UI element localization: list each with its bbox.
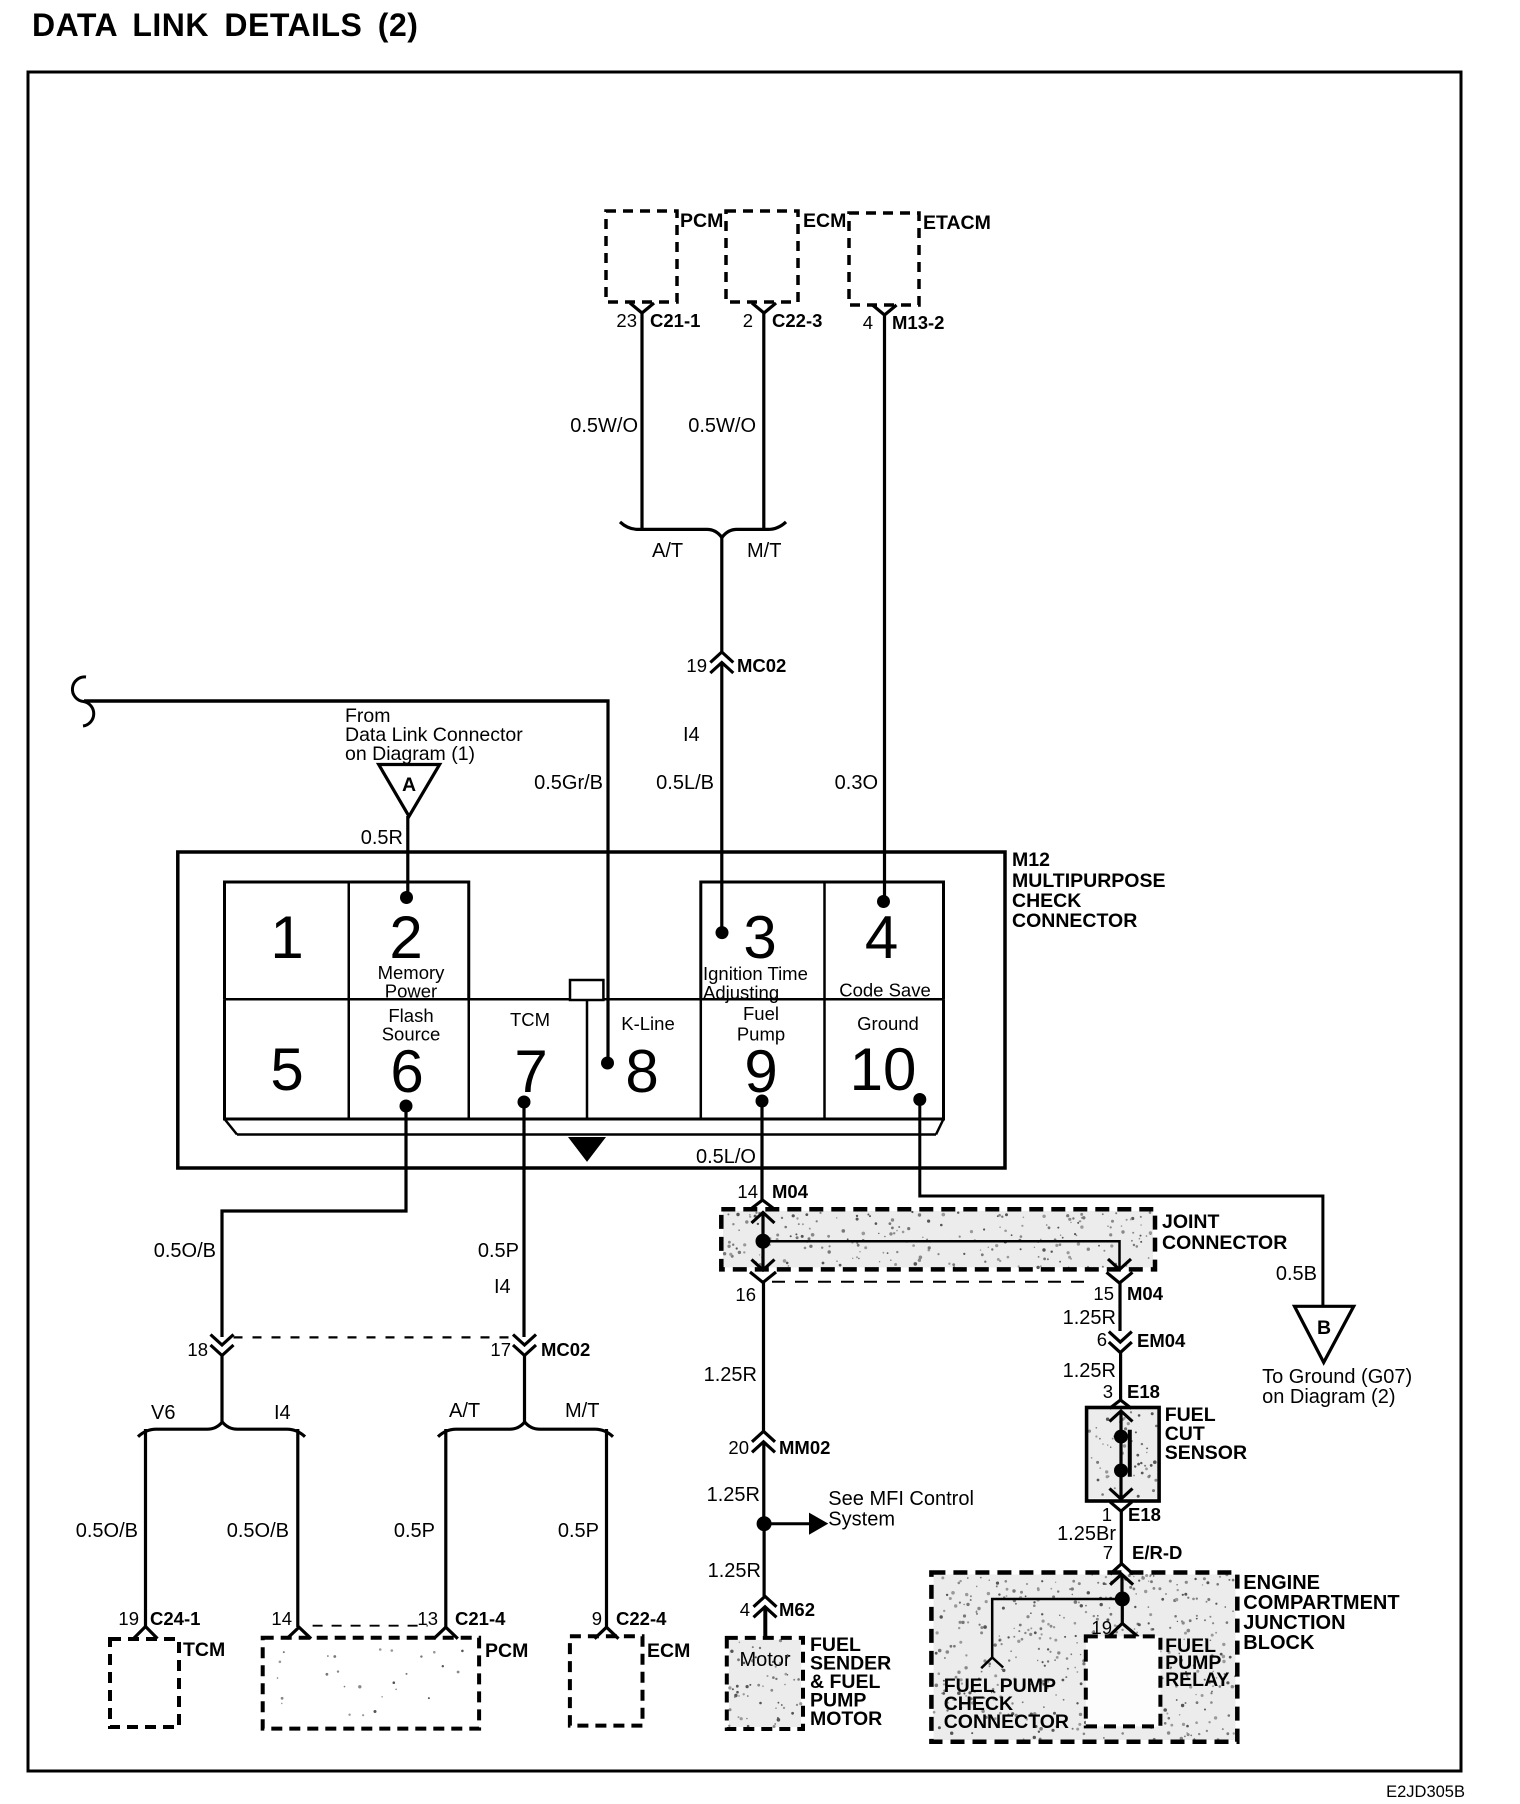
node pin 10 junction dot [913,1093,926,1106]
svg-text:SENSOR: SENSOR [1165,1442,1247,1464]
wire label 1.25R (motor mid) [707,1484,760,1506]
in-line connector pin 19 MC02 [710,652,733,673]
svg-text:4: 4 [865,904,898,971]
pin 8 numeral [625,1038,658,1105]
svg-text:1: 1 [270,904,303,971]
svg-text:3: 3 [743,904,776,971]
svg-text:MC02: MC02 [541,1339,590,1360]
node pin 7 junction dot [518,1096,531,1109]
svg-text:CONNECTOR: CONNECTOR [944,1711,1069,1733]
svg-text:Adjusting: Adjusting [703,982,779,1003]
pin 9 label Fuel Pump [737,1003,785,1045]
svg-text:To Ground (G07): To Ground (G07) [1262,1366,1412,1388]
label ECM (top box) [803,210,846,232]
terminal fork pin 13 of PCM [434,1627,458,1639]
terminal fork fuel pump check connector [981,1658,1003,1669]
connector name EM04 [1137,1330,1186,1351]
svg-text:Motor: Motor [739,1649,790,1671]
pin 2 label Memory Power [378,962,446,1002]
wire label 0.5L/B [656,772,714,794]
pin number 14 (PCM) [271,1608,292,1629]
svg-text:Ground: Ground [857,1013,919,1034]
sensor contact bar [1128,1430,1132,1477]
label Motor [739,1649,790,1671]
ECU box ECM (bottom) [570,1636,643,1725]
wire 1.25R from junction to connector M62 [762,1524,765,1597]
pin number 18 [187,1339,208,1360]
in-line connector pin 20 MM02 [752,1431,775,1452]
wire 1.25R from pin 15 to connector EM04 [1118,1283,1121,1331]
wire joint connector bus to pin 15 [763,1241,1120,1268]
svg-text:A/T: A/T [652,540,683,562]
svg-text:CHECK: CHECK [1012,890,1081,912]
annotation To Ground (G07) on Diagram (2) [1262,1366,1412,1408]
node pin 6 junction dot [400,1100,413,1113]
svg-text:0.5W/O: 0.5W/O [688,415,756,437]
wire label 0.5O/B (upper) [154,1240,216,1262]
node pin 3 junction dot [716,926,729,939]
node pin 2 junction dot [400,891,413,904]
svg-text:JOINT: JOINT [1162,1211,1220,1233]
split bracket V6-I4 [138,1422,305,1437]
arrowhead up (joint connector entry) [752,1213,775,1224]
svg-text:5: 5 [270,1036,303,1103]
svg-text:M/T: M/T [565,1400,599,1422]
wire 1.25R from EM04 to E18 [1119,1352,1122,1400]
fuel cut sensor box [1087,1408,1160,1502]
in-line connector pin 18 (MC02) [211,1335,234,1356]
in-line connector pin 4 M62 [754,1596,777,1617]
fuel cut sensor internal wire [1119,1411,1122,1498]
svg-text:0.5B: 0.5B [1276,1263,1317,1285]
label FUEL PUMP CHECK CONNECTOR [944,1675,1069,1733]
cell divider 6|7 [468,999,471,1119]
svg-text:4: 4 [740,1599,750,1620]
cell divider 7|8 [586,999,589,1119]
terminal fork pin 15 M04 [1107,1272,1133,1283]
wire label 0.5P (A/T) [394,1520,435,1542]
ECU box ETACM (top) [849,213,919,305]
connector name M04 (15) [1127,1283,1164,1304]
wire 1.25Br from sensor to E/R-D [1120,1511,1123,1564]
svg-text:E18: E18 [1127,1381,1160,1402]
pin number 15 [1093,1283,1114,1304]
wire label 1.25Br [1057,1523,1116,1545]
check connector cell grid [225,882,944,1119]
svg-text:Source: Source [382,1024,441,1045]
svg-text:7: 7 [514,1038,547,1105]
svg-text:0.5P: 0.5P [478,1240,519,1262]
svg-text:B: B [1317,1317,1331,1339]
cell divider 9|10 [823,882,826,1119]
dashed link between connectors 18 and 17 [234,1336,514,1338]
svg-text:E2JD305B: E2JD305B [1386,1783,1465,1801]
label I4 (branch) [274,1402,291,1424]
svg-text:MC02: MC02 [737,655,786,676]
pin number 13 (PCM) [417,1608,438,1629]
svg-text:PCM: PCM [485,1640,528,1662]
svg-text:Power: Power [385,981,437,1002]
wire 1.25R from MM02 to junction [762,1442,765,1524]
pin 2 numeral [389,904,422,971]
svg-text:V6: V6 [151,1402,175,1424]
connector name C22-3 [772,310,822,331]
wire label 0.5P (M/T) [558,1520,599,1542]
in-line connector at junction block entry [1110,1564,1133,1585]
split bracket A/T-M/T (lower) [438,1422,613,1437]
terminal fork pin 1 E18 [1110,1502,1132,1511]
in-line connector pin 17 MC02 [513,1335,536,1356]
wire label 1.25R (motor lower) [708,1560,761,1582]
svg-text:15: 15 [1093,1283,1114,1304]
label FUEL CUT SENSOR [1165,1404,1247,1464]
pin number 6 [1097,1329,1107,1350]
wire from A/T-M/T merge to connector MC02 pin 19 [720,537,723,653]
svg-text:on Diagram (2): on Diagram (2) [1262,1386,1395,1408]
pin 7 label TCM [510,1009,550,1030]
svg-text:0.5P: 0.5P [558,1520,599,1542]
terminal fork pin 16 [750,1272,776,1283]
wire 0.5P from pin 7 [522,1102,525,1337]
wire 0.5P A/T branch to PCM pin 13 [444,1429,447,1627]
wire from connector 17 to A/T-M/T split [523,1356,526,1423]
svg-text:M04: M04 [772,1181,809,1202]
wire label 0.5P (upper) [478,1240,519,1262]
wire label 1.25R (motor upper) [704,1364,757,1386]
wire label 0.5B [1276,1263,1317,1285]
wire to MFI control system with arrowhead [764,1514,827,1534]
svg-text:E/R-D: E/R-D [1132,1542,1182,1563]
label ETACM (top box) [923,212,991,234]
connector name MM02 [779,1437,830,1458]
wire label 1.25R (right lower) [1063,1360,1116,1382]
pin number 4 (M62) [740,1599,750,1620]
label FUEL SENDER & FUEL PUMP MOTOR [810,1634,891,1730]
svg-text:ENGINE: ENGINE [1243,1572,1320,1594]
connector name MC02 (17) [541,1339,590,1360]
pin number 9 (ECM) [592,1608,602,1629]
arrowhead down (right exit) [1108,1259,1131,1270]
svg-text:1.25R: 1.25R [1063,1360,1116,1382]
terminal fork pin 23 of PCM [630,303,654,313]
label M/T (top) [747,540,781,562]
pin 10 numeral [850,1036,917,1103]
svg-text:C24-1: C24-1 [150,1608,200,1629]
svg-text:0.5O/B: 0.5O/B [154,1240,216,1262]
svg-text:JUNCTION: JUNCTION [1243,1612,1345,1634]
connector name C24-1 [150,1608,200,1629]
terminal fork pin 2 of ECM [752,303,776,313]
wire 0.5O/B V6 branch to TCM [144,1429,147,1627]
terminal fork pin 4 of ETACM [873,305,897,315]
pin 7 numeral [514,1038,547,1105]
terminal fork pin 14 of PCM [287,1627,311,1639]
annotation See MFI Control System [828,1488,974,1531]
svg-text:EM04: EM04 [1137,1330,1186,1351]
svg-text:1.25R: 1.25R [704,1364,757,1386]
svg-text:0.5O/B: 0.5O/B [227,1520,289,1542]
svg-text:19: 19 [686,655,707,676]
svg-text:0.5R: 0.5R [361,827,403,849]
wire label 0.5O/B (I4) [227,1520,289,1542]
wire stub squiggle [72,677,93,726]
pin number 19 (TCM) [118,1608,139,1629]
pin 5 numeral [270,1036,303,1103]
svg-text:M04: M04 [1127,1283,1164,1304]
wire 0.5Gr/B horizontal from data link [84,699,610,703]
svg-text:0.5O/B: 0.5O/B [76,1520,138,1542]
svg-text:on Diagram (1): on Diagram (1) [345,743,475,765]
ECU box PCM (bottom) [263,1638,479,1729]
svg-text:C21-4: C21-4 [455,1608,506,1629]
cell divider 8|9 [700,999,703,1119]
harness label I4 [683,724,700,746]
harness label I4 (0.5P wire) [494,1276,511,1298]
ECU box TCM (bottom) [110,1639,179,1727]
pin 4 label Code Save [839,980,931,1001]
pin 10 label Ground [857,1013,919,1034]
svg-text:10: 10 [850,1036,917,1103]
svg-text:13: 13 [417,1608,438,1629]
svg-text:MM02: MM02 [779,1437,830,1458]
orientation marker filled triangle [569,1138,605,1162]
node joint connector junction dot [756,1234,771,1249]
svg-text:0.5L/O: 0.5L/O [696,1146,756,1168]
wire 0.5O/B from pin 6 [222,1106,406,1337]
svg-text:0.5P: 0.5P [394,1520,435,1542]
svg-text:4: 4 [863,312,873,333]
joint connector continuation dashed line [772,1281,1090,1283]
connector name E/R-D [1132,1542,1182,1563]
svg-text:16: 16 [735,1284,756,1305]
wire from connector 18 to V6-I4 split [220,1356,223,1423]
svg-text:14: 14 [271,1608,292,1629]
pin 4 numeral [865,904,898,971]
svg-text:0.5Gr/B: 0.5Gr/B [534,772,603,794]
svg-text:3: 3 [1103,1381,1113,1402]
svg-text:A/T: A/T [449,1400,480,1422]
pin 3 label Ignition Time Adjusting [703,963,808,1003]
wire label 0.5Gr/B [534,772,603,794]
label M/T (lower) [565,1400,599,1422]
svg-text:I4: I4 [683,724,700,746]
node pin 8 junction dot [601,1057,614,1070]
off-page triangle B [1295,1306,1354,1362]
terminal fork pin 3 E18 [1110,1400,1132,1409]
svg-text:2: 2 [389,904,422,971]
svg-text:BLOCK: BLOCK [1243,1632,1315,1654]
wire from M62 into motor [763,1607,767,1638]
svg-text:Ignition Time: Ignition Time [703,963,808,984]
terminal fork pin 19 of fuel pump relay [1107,1623,1139,1638]
node junction block dot [1115,1592,1130,1607]
svg-text:E18: E18 [1128,1504,1161,1525]
svg-text:COMPARTMENT: COMPARTMENT [1243,1592,1399,1614]
arrowhead up (sensor entry) [1110,1411,1133,1422]
svg-text:1.25R: 1.25R [707,1484,760,1506]
label TCM (bottom box) [183,1639,225,1661]
node sensor contact dot lower [1114,1464,1128,1478]
label FUEL PUMP RELAY [1165,1635,1229,1691]
svg-text:20: 20 [728,1437,749,1458]
connector key tab [570,980,603,1000]
svg-text:7: 7 [1103,1542,1113,1563]
wire 0.5R from triangle A to check connector pin 2 [406,816,409,898]
wire 0.5W/O from ECM pin 2 [762,313,765,529]
node MFI branch junction dot [757,1516,772,1531]
wire from E/R-D to relay junction [1120,1575,1123,1599]
pin number 17 [490,1339,511,1360]
wire 0.5B from pin 10 to triangle B [920,1100,1323,1307]
pin number 14 (M04) [737,1181,758,1202]
node pin 9 junction dot [756,1095,769,1108]
wire 0.5W/O from PCM pin 23 [640,313,643,529]
label M12 MULTIPURPOSE CHECK CONNECTOR [1012,849,1165,932]
terminal fork pin 14 M04 [750,1200,776,1210]
connector name M04 (14) [772,1181,809,1202]
svg-text:14: 14 [737,1181,758,1202]
wire label 0.5W/O (right) [688,415,756,437]
pin number 3 (E18) [1103,1381,1113,1402]
pin number 1 (E18) [1102,1504,1112,1525]
annotation From Data Link Connector on Diagram (1) [345,705,523,765]
svg-text:TCM: TCM [510,1009,550,1030]
label PCM (top box) [680,210,723,232]
pin 9 numeral [744,1038,777,1105]
svg-text:6: 6 [390,1038,423,1105]
wire 0.5Gr/B vertical to check connector pin 8 K-Line [606,700,609,1064]
in-line connector pin 6 EM04 [1109,1332,1132,1353]
wire label 0.3O [835,772,878,794]
svg-text:TCM: TCM [183,1639,225,1661]
label A/T (top) [652,540,683,562]
node sensor contact dot upper [1114,1430,1128,1444]
svg-text:17: 17 [490,1339,511,1360]
terminal fork pin 9 of ECM [595,1627,619,1639]
svg-text:K-Line: K-Line [621,1013,674,1034]
svg-text:C22-4: C22-4 [616,1608,667,1629]
svg-text:8: 8 [625,1038,658,1105]
wire label 0.5R [361,827,403,849]
connector name M13-2 [892,312,944,333]
pin number 16 [735,1284,756,1305]
terminal fork pin 19 of TCM [134,1627,158,1639]
label A/T (lower) [449,1400,480,1422]
pin 3 numeral [743,904,776,971]
svg-text:0.5L/B: 0.5L/B [656,772,714,794]
wire 0.5O/B I4 branch to PCM pin 14 [296,1429,299,1627]
ECU box PCM (top) [606,211,677,302]
dashed link between PCM forks [313,1625,428,1627]
svg-text:I4: I4 [494,1276,511,1298]
pin number 19 (relay) [1091,1617,1112,1638]
pin number 2 [743,310,753,331]
pin number 4 [863,312,873,333]
diagram code E2JD305B [1386,1783,1465,1801]
arrowhead down (left exit) [752,1260,775,1271]
svg-text:Fuel: Fuel [743,1003,779,1024]
pin number 7 (E/R-D) [1103,1542,1113,1563]
joint connector box [721,1209,1155,1269]
svg-text:M13-2: M13-2 [892,312,944,333]
connector name C22-4 [616,1608,667,1629]
cell divider 1|2 and 5|6 [348,882,351,1119]
wire label 0.5L/O [696,1146,756,1168]
svg-text:C22-3: C22-3 [772,310,822,331]
svg-text:C21-1: C21-1 [650,310,700,331]
arrowhead down (sensor exit) [1110,1489,1133,1500]
svg-text:ETACM: ETACM [923,212,991,234]
svg-text:RELAY: RELAY [1165,1669,1229,1691]
svg-text:6: 6 [1097,1329,1107,1350]
svg-text:MOTOR: MOTOR [810,1708,882,1730]
wire to fuel pump check connector [992,1599,1122,1657]
svg-text:1.25R: 1.25R [1063,1307,1116,1329]
svg-text:PCM: PCM [680,210,723,232]
label PCM (bottom box) [485,1640,528,1662]
svg-text:M/T: M/T [747,540,781,562]
M12 multipurpose check connector outer box [178,852,1005,1168]
wire 1.25R from pin 16 to connector MM02 [762,1283,765,1432]
svg-text:9: 9 [592,1608,602,1629]
engine compartment junction block box [931,1573,1237,1742]
label ENGINE COMPARTMENT JUNCTION BLOCK [1243,1572,1399,1654]
wire inside joint connector (left) [761,1212,764,1270]
connector name MC02 [737,655,786,676]
svg-text:Code Save: Code Save [839,980,931,1001]
svg-text:M62: M62 [779,1599,815,1620]
wire 0.5P M/T branch to ECM pin 9 [605,1429,608,1627]
svg-text:DATA LINK DETAILS (2): DATA LINK DETAILS (2) [32,7,418,43]
svg-text:0.5W/O: 0.5W/O [570,415,638,437]
wire label 1.25R (right upper) [1063,1307,1116,1329]
svg-text:I4: I4 [274,1402,291,1424]
svg-text:CONNECTOR: CONNECTOR [1162,1232,1287,1254]
fuel pump relay box [1086,1636,1161,1726]
connector name E18 (3) [1127,1381,1160,1402]
svg-text:19: 19 [118,1608,139,1629]
wire 0.3O from ETACM pin 4 [883,315,886,901]
svg-text:2: 2 [743,310,753,331]
wire label 0.5O/B (V6) [76,1520,138,1542]
connector name M62 [779,1599,815,1620]
fuel pump motor box [727,1638,803,1729]
svg-text:System: System [828,1509,895,1531]
svg-text:M12: M12 [1012,849,1050,871]
pin 8 label K-Line [621,1013,674,1034]
off-page triangle A [379,765,440,817]
wire 0.5L/B to check connector pin 3 [720,663,723,932]
svg-text:ECM: ECM [803,210,846,232]
label V6 [151,1402,175,1424]
ECU box ECM (top) [726,211,798,302]
connector name C21-4 [455,1608,506,1629]
pin 6 numeral [390,1038,423,1105]
connector name C21-1 [650,310,700,331]
svg-text:1: 1 [1102,1504,1112,1525]
label ECM (bottom box) [647,1640,690,1662]
svg-text:18: 18 [187,1339,208,1360]
svg-text:0.3O: 0.3O [835,772,878,794]
merge bracket A/T-M/T [620,522,786,538]
connector housing flange [225,1119,944,1135]
node pin 4 junction dot [877,895,890,908]
connector name E18 (1) [1128,1504,1161,1525]
svg-text:See MFI Control: See MFI Control [828,1488,974,1510]
svg-text:Pump: Pump [737,1024,785,1045]
wire label 0.5W/O (left) [570,415,638,437]
pin number 19 [686,655,707,676]
